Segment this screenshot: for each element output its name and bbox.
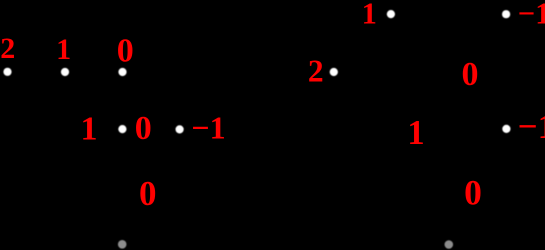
svg-text:0: 0: [462, 56, 479, 93]
svg-text:0: 0: [117, 32, 134, 69]
svg-text:−1: −1: [191, 109, 225, 145]
svg-text:−1: −1: [518, 0, 545, 30]
svg-text:1: 1: [81, 110, 98, 147]
svg-text:0: 0: [135, 110, 152, 147]
svg-text:1: 1: [56, 33, 71, 66]
svg-text:2: 2: [308, 53, 324, 88]
svg-text:1: 1: [362, 0, 377, 30]
svg-text:0: 0: [139, 174, 157, 213]
svg-text:0: 0: [464, 172, 482, 212]
svg-text:1: 1: [407, 114, 424, 152]
svg-text:2: 2: [0, 32, 15, 65]
svg-text:−1: −1: [518, 107, 545, 146]
